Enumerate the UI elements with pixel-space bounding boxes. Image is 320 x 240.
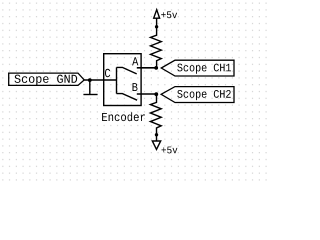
pin label A (132, 57, 138, 65)
ground (83, 80, 97, 94)
switch blade B (117, 94, 138, 101)
pin B wire (137, 93, 157, 95)
text Scope CH1 (177, 64, 231, 74)
net label flag Scope CH2 (161, 87, 234, 103)
resistor R1 (151, 27, 162, 68)
pin label B (133, 83, 138, 91)
junction dot CH1 node (154, 66, 158, 70)
power symbol +5v bottom (152, 135, 160, 150)
pin dot top power (155, 25, 158, 28)
pin label C (105, 69, 110, 77)
resistor R2 (150, 94, 161, 135)
pin A wire (137, 67, 156, 69)
switch common bar (116, 67, 118, 93)
junction dot C net (88, 78, 92, 82)
power symbol +5v top (154, 10, 160, 27)
wire C net (84, 79, 116, 81)
encoder U1 box (104, 54, 141, 106)
switch blade A (117, 67, 137, 74)
text +5v bottom (162, 147, 178, 154)
label Encoder (102, 112, 145, 121)
text Scope GND (15, 75, 78, 86)
net label flag Scope GND (9, 73, 85, 85)
text Scope CH2 (177, 90, 230, 100)
junction dot CH2 node (154, 92, 158, 96)
text +5v top (161, 11, 177, 18)
pin dot bottom power (155, 133, 158, 136)
net label flag Scope CH1 (161, 60, 234, 76)
